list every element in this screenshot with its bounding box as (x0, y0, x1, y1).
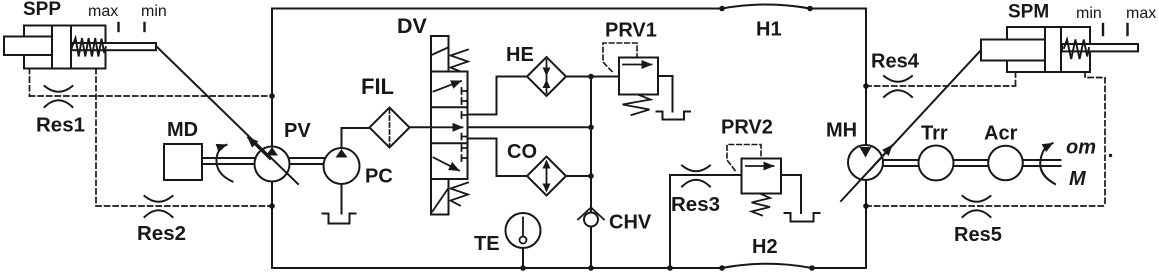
DV top solenoid (431, 36, 449, 72)
wire: right border lower (MH to bottom) (865, 180, 867, 268)
SPM thick rod (left) (981, 40, 1045, 61)
svg-text:SPP: SPP (23, 0, 61, 20)
svg-text:PRV1: PRV1 (605, 20, 657, 42)
svg-text:H2: H2 (752, 236, 778, 258)
svg-text:DV: DV (397, 14, 428, 38)
SPP thin rod (right) (72, 43, 157, 50)
tick max (left) (117, 23, 119, 31)
svg-text:Res2: Res2 (137, 222, 186, 245)
svg-text:max: max (1126, 5, 1156, 22)
motor MH (variable, on right border) (848, 145, 883, 180)
dashed feedback: SPM left tap down (1015, 72, 1017, 86)
DV bottom solenoid diagonal (432, 189, 447, 212)
PRV2 pilot dashed line (727, 145, 761, 171)
motor drive MD box (164, 144, 202, 180)
angular transducer Acr (988, 146, 1023, 181)
pump PV (variable, on left border) (255, 147, 290, 182)
DV bottom solenoid (431, 179, 449, 215)
heater HE (527, 57, 566, 96)
dashed feedback line with Res4 to right border (866, 85, 1016, 87)
svg-text:Trr: Trr (921, 123, 948, 145)
wire: DV middle port to node line (468, 126, 592, 128)
svg-text:TE: TE (474, 233, 500, 255)
relief valve PRV1 body (619, 58, 658, 95)
resistance Res5 (963, 196, 991, 217)
DV section1 flow arrow (434, 81, 462, 92)
PRV1 pilot dashed line (603, 43, 637, 72)
PC flow triangle (336, 149, 348, 158)
svg-text:HE: HE (506, 44, 534, 66)
MH variable displacement arrowhead (points up-right) (870, 146, 892, 171)
wire: left border upper (top to PV) (271, 9, 273, 148)
svg-text:PV: PV (284, 120, 311, 142)
DV section3 flow arrow (434, 158, 460, 171)
DV section1 blocked port stubs (462, 88, 468, 104)
dashed feedback: SPM right tap, down right side (1085, 72, 1105, 206)
shaft Acr to load end (1023, 160, 1061, 166)
filter FIL (370, 108, 410, 148)
DV bottom spring (451, 183, 469, 206)
PRV1 spring (623, 95, 651, 115)
shaft MD to PV (double line) (202, 158, 255, 164)
cylinder SPP body (24, 26, 106, 69)
FIL dashed element (389, 109, 391, 146)
shaft PV to PC (double line) (290, 158, 325, 164)
tick max (right) (1126, 24, 1128, 35)
svg-text:PRV2: PRV2 (721, 117, 773, 139)
wire: PRV1 out to tank (658, 76, 673, 112)
svg-text:om: om (1066, 137, 1096, 159)
CO inner line and outward arrows (546, 162, 548, 190)
rotation arrow at MD shaft (216, 145, 232, 182)
hose H2 (arc between junction dots) (722, 264, 812, 268)
tank at PRV1 (657, 112, 691, 120)
wire: PRV2 out to tank (781, 175, 801, 213)
wire: TE to bottom line (522, 248, 524, 268)
MH flow triangle (points down) (860, 147, 872, 158)
PV variable displacement arrowhead (points up-left) (248, 138, 270, 160)
SPM spring (1064, 40, 1089, 60)
svg-text:H1: H1 (756, 19, 782, 41)
PV control linkage from SPP rod (diagonal) (156, 46, 298, 184)
tick min (right) (1102, 24, 1104, 35)
tank below PC (323, 214, 356, 224)
svg-text:CHV: CHV (609, 212, 652, 234)
shaft MH to Trr (883, 160, 919, 166)
tick min (left) (143, 23, 145, 31)
dashed feedback line with Res2 to left border (96, 205, 272, 207)
DV section dividers (431, 107, 468, 143)
svg-text:FIL: FIL (361, 74, 394, 99)
PRV1 flow arrow (623, 64, 652, 66)
DV section2 through arrow (431, 126, 463, 128)
svg-text:MD: MD (167, 119, 198, 141)
MH control linkage to SPM rod (diagonal) (841, 50, 981, 201)
tank at PRV2 (785, 213, 820, 222)
svg-text:SPM: SPM (1008, 2, 1049, 23)
rotation arrow om/M (1040, 143, 1055, 184)
check valve CHV (584, 213, 598, 227)
SPP thick rod (left) (4, 37, 52, 56)
wire: bottom main line left segment (272, 267, 722, 269)
wire: DV port to CO (elbow) (468, 139, 528, 177)
svg-text:min: min (1076, 5, 1102, 22)
SPP piston (52, 26, 71, 69)
DV top solenoid diagonal (432, 48, 449, 56)
PRV2 flow arrow (746, 165, 774, 167)
wire: top main line right segment (810, 8, 866, 10)
svg-text:Acr: Acr (984, 123, 1018, 145)
wire: riser to PRV2 (670, 174, 742, 176)
wire: PC up to filter row (342, 128, 370, 148)
svg-text:Res1: Res1 (36, 114, 85, 137)
SPM thin rod (right) (1062, 44, 1138, 51)
cylinder SPM body (1007, 27, 1090, 72)
wire: DV port to HE (elbow) (468, 77, 528, 115)
svg-text:max: max (88, 3, 118, 20)
HE inner line and inward arrows (546, 60, 548, 93)
wire: vertical node line x=591 (590, 77, 592, 269)
dashed feedback: SPP right tap down (95, 69, 97, 207)
dashed feedback line with Res5 to MH (866, 205, 1105, 207)
relief valve PRV2 body (742, 159, 782, 194)
wire: PC down to tank (341, 184, 343, 214)
svg-text:Res3: Res3 (671, 193, 720, 216)
DV section2 blocked port stubs (462, 112, 468, 140)
wire: FIL to DV (410, 126, 432, 128)
wire: left border lower (PV to bottom) (271, 181, 273, 268)
DV section3 blocked port stubs (462, 145, 468, 161)
svg-text:PC: PC (365, 166, 393, 188)
resistance Res2 (145, 196, 173, 217)
svg-text:CO: CO (507, 141, 537, 163)
dashed feedback line with Res1 to left border (30, 95, 273, 97)
svg-text:Res5: Res5 (954, 224, 1002, 246)
wire: top main line left segment (272, 8, 722, 10)
SPP spring (72, 38, 106, 57)
dashed feedback: SPP left tap down (29, 69, 31, 97)
valve DV body (431, 72, 468, 180)
hose H1 (arc between junction dots) (722, 5, 810, 9)
resistance Res3 (682, 166, 710, 187)
resistance Res4 (884, 76, 912, 97)
resistance Res1 (45, 86, 73, 107)
SPM piston (1045, 27, 1061, 72)
pump PC (charge pump) (324, 148, 360, 184)
wire: HE to PRV1 (566, 76, 619, 78)
svg-text:MH: MH (826, 120, 857, 142)
svg-text:M: M (1069, 168, 1087, 190)
wire: bottom main line right segment (812, 267, 866, 269)
cooler CO (527, 157, 566, 196)
DV top spring (451, 50, 469, 72)
shaft Trr to Acr (954, 160, 989, 166)
svg-text:Res4: Res4 (871, 51, 920, 73)
wire: CO to node line (566, 175, 591, 177)
torque transducer Trr (919, 146, 954, 181)
PV flow triangle (266, 147, 278, 156)
wire: right border upper (to MH) (865, 9, 867, 147)
thermometer TE (506, 213, 541, 248)
PRV2 spring (752, 194, 771, 216)
svg-text:min: min (141, 3, 167, 20)
wire: PRV2 branch riser (669, 175, 671, 268)
